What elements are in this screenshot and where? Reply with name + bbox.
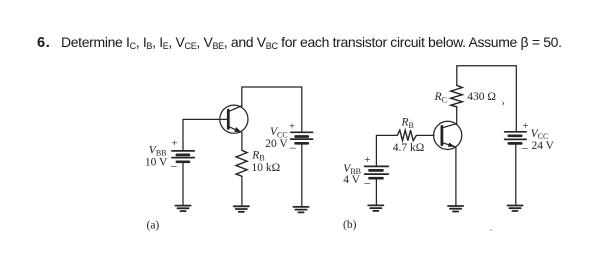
svg-text:›: › xyxy=(502,98,505,109)
svg-text:−: − xyxy=(171,160,178,174)
wire: RB (a) to ground xyxy=(241,176,243,206)
resistor RC (b) 430 Ohm xyxy=(451,85,463,107)
ground: left (b) xyxy=(368,205,383,211)
svg-text:24 V: 24 V xyxy=(532,140,555,152)
wire: base wire (b) right of RB xyxy=(416,134,434,136)
svg-text:+: + xyxy=(289,120,295,132)
wire: emitter (b) to ground xyxy=(455,147,457,206)
transistor Q (a) xyxy=(220,105,248,133)
battery VBB (b) 4 V xyxy=(365,166,389,178)
svg-text:+: + xyxy=(364,154,370,166)
svg-text:−: − xyxy=(522,141,529,155)
svg-text:+: + xyxy=(522,120,528,132)
svg-text:−: − xyxy=(290,141,297,155)
wire: RB (b) to VBB xyxy=(376,135,397,166)
ground: right (b) xyxy=(507,206,522,212)
ground: left (a) xyxy=(175,206,190,212)
svg-text:RC: RC xyxy=(434,91,447,104)
svg-text:(a): (a) xyxy=(147,219,160,231)
svg-text:10 kΩ: 10 kΩ xyxy=(252,162,281,174)
wire: top rail (b) xyxy=(457,66,517,131)
wire: base wire (a) xyxy=(183,119,227,150)
wire: top rail (a) collector to VCC xyxy=(242,87,302,132)
svg-text:20 V: 20 V xyxy=(265,138,288,150)
wire: VCC (b) to ground xyxy=(515,143,517,205)
svg-text:`: ` xyxy=(490,228,493,238)
resistor RB (b) 4.7 kOhm xyxy=(397,130,416,140)
svg-text:RB: RB xyxy=(251,149,264,162)
ground: middle (b) xyxy=(448,206,463,212)
svg-text:−: − xyxy=(364,176,371,190)
svg-text:RB: RB xyxy=(401,117,414,130)
wire: VCC (a) to ground xyxy=(301,143,303,206)
ground: middle (a) xyxy=(234,206,249,212)
svg-text:4 V: 4 V xyxy=(343,174,360,186)
svg-text:4.7 kΩ: 4.7 kΩ xyxy=(393,142,425,154)
svg-text:430 Ω: 430 Ω xyxy=(467,91,496,103)
wire: VBB (a) to ground xyxy=(182,162,184,205)
battery VCC (a) 20 V xyxy=(291,132,313,143)
wire: VBB (b) to ground xyxy=(375,178,377,205)
svg-text:(b): (b) xyxy=(343,219,357,231)
wire: RC to collector (b) xyxy=(456,107,458,124)
battery VBB (a) 10 V xyxy=(172,151,194,162)
battery VCC (b) 24 V xyxy=(505,132,527,144)
title: problem statement xyxy=(37,34,562,51)
svg-text:10 V: 10 V xyxy=(145,156,168,168)
transistor Q (b) xyxy=(434,121,462,149)
svg-text:+: + xyxy=(171,138,177,150)
wire: emitter to RB (a) xyxy=(241,132,243,150)
ground: right (a) xyxy=(293,207,308,213)
resistor RB (a) 10 kOhm xyxy=(236,150,247,176)
